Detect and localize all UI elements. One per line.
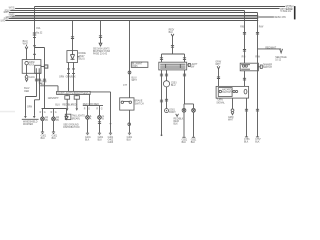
wire lamp C1 drop: [87, 106, 89, 116]
junction dot bottom left: [161, 134, 163, 136]
wire jog B: [35, 100, 40, 116]
lamp PARK2: [52, 117, 56, 121]
svg-text:TAILLIGHTS: TAILLIGHTS: [72, 115, 85, 118]
wire comb out mid: [166, 70, 168, 81]
svg-text:G101: G101: [29, 77, 35, 79]
svg-text:RED: RED: [72, 105, 77, 107]
wire lamp C2 drop: [99, 106, 101, 116]
arrow A down: [24, 116, 27, 118]
svg-text:G403: G403: [108, 142, 114, 144]
inner box B: [218, 88, 232, 97]
svg-text:G: G: [55, 112, 57, 114]
contact circle inner: [219, 90, 221, 92]
wire box B out right: [246, 98, 248, 137]
svg-text:SIGNAL: SIGNAL: [216, 101, 225, 104]
connector bar: [22, 118, 39, 120]
feed from band: [89, 95, 91, 106]
end tick right1: [245, 136, 248, 138]
diode symbol inside: [70, 51, 74, 60]
svg-text:WASHER: WASHER: [23, 123, 33, 126]
switch box B outer: [216, 86, 249, 98]
ground G101 circle-arrow: [25, 76, 28, 79]
ground ticks switch: [128, 133, 131, 135]
svg-text:G: G: [88, 109, 90, 111]
arrow down B: [76, 108, 79, 111]
lamp TAIL2: [192, 108, 196, 112]
ground ticks lamp1: [86, 133, 89, 135]
connector box out A: [66, 95, 68, 96]
boxed label on wire: [131, 62, 148, 67]
wire drop B from L4: [257, 13, 259, 137]
internal rows: [160, 64, 185, 68]
RIGHTCOL: [215, 11, 287, 144]
appendix stub: [187, 64, 189, 66]
oval contact: [244, 89, 247, 94]
svg-text:(BLU): (BLU): [79, 58, 85, 60]
wire gnd-arrow drop: [66, 109, 68, 117]
wire lamp L2 ground: [53, 121, 55, 132]
svg-text:BLK: BLK: [255, 141, 260, 143]
wire arrow to box B: [218, 69, 220, 86]
junction dot x110.9: [110, 123, 112, 125]
ticks wire B low: [256, 109, 259, 111]
svg-text:GRN/WHT: GRN/WHT: [48, 98, 60, 100]
wire drop to diode unit: [72, 21, 74, 51]
lamp DASH2: [98, 116, 102, 120]
lamp DASH1: [86, 116, 90, 120]
wire box B out left: [232, 98, 234, 109]
hollow arrow down: [65, 116, 68, 119]
wire jog A: [26, 97, 37, 116]
svg-text:BLK: BLK: [52, 138, 57, 140]
svg-text:C505: C505: [132, 66, 138, 68]
wire TAIL2 ground: [193, 112, 195, 137]
svg-text:BLK: BLK: [98, 139, 103, 141]
wire band extension right: [90, 92, 110, 133]
wire bus L1 WHT: [35, 6, 286, 8]
connector arrow into relay: [25, 45, 28, 49]
svg-text:RED GRN RED: RED GRN RED: [83, 104, 99, 106]
svg-text:ASSY: ASSY: [79, 55, 86, 58]
wire bus L6: [11, 16, 274, 18]
BUSES: [1, 6, 296, 22]
wire bus L2 WHT/YEL: [15, 8, 280, 10]
wire bus L7: [9, 18, 259, 20]
svg-text:SWITCH: SWITCH: [135, 103, 144, 105]
ticks mid low: [165, 99, 168, 101]
ticks: [245, 109, 248, 111]
wire lamp2 to ground: [99, 119, 101, 133]
ticks box A out: [243, 78, 246, 80]
svg-text:MOTOR: MOTOR: [29, 65, 34, 67]
connector label box C1: [44, 65, 48, 68]
svg-text:G: G: [101, 109, 103, 111]
svg-text:WHT: WHT: [132, 80, 138, 82]
svg-text:GRN: GRN: [59, 77, 64, 79]
wire arrow to relay box: [26, 49, 28, 59]
svg-text:C77: C77: [123, 85, 128, 87]
svg-text:BLK: BLK: [182, 142, 187, 144]
wire box A out: [244, 71, 246, 87]
stub right of diode box: [78, 56, 80, 58]
ground ticks x110.9: [109, 133, 112, 135]
connector circle-arrow: [231, 109, 234, 112]
fork bar right lamps: [184, 104, 194, 109]
wire relay pin A down: [36, 73, 38, 96]
connector ticks outs: [67, 69, 75, 74]
svg-text:BLK: BLK: [85, 139, 90, 141]
svg-text:SWITCH: SWITCH: [222, 92, 232, 94]
wire mid to ground circle: [166, 87, 168, 109]
wire TAIL1 ground: [183, 112, 185, 137]
wire lamp L1 ground: [42, 121, 44, 132]
diode unit box U1: [67, 51, 78, 63]
svg-text:BLK: BLK: [41, 84, 46, 86]
svg-text:DISTRIBUTION: DISTRIBUTION: [63, 127, 80, 129]
svg-text:BLK: BLK: [127, 139, 132, 141]
ticks x100: [99, 36, 102, 38]
wire drop arrow mid x100: [100, 21, 102, 44]
wire motor to ground: [26, 65, 28, 76]
svg-text:SWITCH: SWITCH: [263, 67, 272, 69]
lamp bus left: [42, 108, 67, 110]
wire lamp L2 drop: [53, 109, 55, 117]
svg-text:BODY: BODY: [169, 112, 176, 114]
wire bus L3: [10, 10, 244, 12]
svg-text:15A: 15A: [36, 27, 41, 30]
connector tick riser y45.8: [33, 45, 36, 47]
internal dividers: [166, 64, 181, 68]
arrow mid hollow: [99, 43, 102, 46]
svg-text:SEE PAGE: SEE PAGE: [275, 56, 287, 59]
faint page artifact bottom-left: [0, 111, 15, 113]
contact circles: [121, 101, 123, 103]
svg-text:10-12: 10-12: [275, 59, 282, 61]
wire branch to x44: [35, 48, 45, 109]
arrow B down: [33, 116, 36, 118]
ticks wire A: [243, 32, 246, 34]
svg-text:HAZARD: HAZARD: [222, 89, 232, 92]
svg-text:No.32: No.32: [36, 32, 43, 34]
connector box out B: [76, 95, 78, 96]
svg-text:WASHER: WASHER: [29, 61, 35, 64]
connector circle C facing: [163, 81, 169, 87]
wire comb right leg: [184, 54, 186, 62]
wire main riser: [34, 7, 36, 60]
svg-text:PK: PK: [45, 120, 49, 122]
lamp bus center: [83, 105, 103, 107]
wire diode out A: [68, 63, 70, 92]
arrow on wire B: [39, 83, 42, 85]
ticks out mid: [165, 74, 168, 76]
svg-text:SEE DASH LIGHTS: SEE DASH LIGHTS: [93, 47, 110, 50]
connector arrow comb: [171, 34, 174, 37]
MIDCOL: [40, 21, 148, 144]
wire bus L8: [5, 20, 258, 22]
wire bus L5: [15, 15, 258, 17]
svg-text:PK: PK: [56, 120, 60, 122]
comb switch box SW1: [159, 62, 187, 70]
sub-box switch contacts: [35, 65, 41, 73]
COMBSW: [159, 30, 198, 144]
svg-text:BLK: BLK: [174, 124, 179, 126]
connector ticks on riser: [33, 33, 36, 37]
ticks comb legs: [160, 58, 186, 60]
stub right box A: [258, 66, 260, 68]
switch box A: [240, 63, 258, 71]
page-continuation bar right: [294, 6, 296, 19]
wire arrow stub A: [66, 99, 68, 108]
svg-text:BRAKE: BRAKE: [135, 100, 143, 103]
svg-text:BLU: BLU: [171, 85, 176, 87]
lamp TAIL1: [182, 108, 186, 112]
wire lamp1 to ground: [87, 119, 89, 133]
svg-text:DASH LIGHTS BRIGHTNESS: DASH LIGHTS BRIGHTNESS: [58, 92, 89, 95]
wire comb out right: [184, 70, 186, 104]
svg-text:BLU: BLU: [55, 105, 60, 107]
svg-text:(REAR): (REAR): [72, 117, 80, 120]
contacts pair: [233, 90, 235, 92]
ticks wire A low: [243, 50, 246, 52]
relay box (wiper motor assy): [22, 60, 41, 74]
svg-text:R/B: R/B: [242, 56, 246, 58]
wire arrow stub B: [76, 99, 78, 108]
splice circle S2: [128, 123, 131, 126]
tick pair on lamp2 wire: [98, 122, 101, 124]
svg-text:R/B: R/B: [240, 26, 244, 28]
branch to page arrow: [258, 48, 282, 50]
svg-text:RED/WHT: RED/WHT: [265, 47, 276, 49]
svg-text:GRN: GRN: [27, 106, 32, 108]
svg-text:RED: RED: [24, 91, 29, 93]
T-bar comb: [162, 53, 185, 55]
wire diode out B: [73, 63, 75, 92]
ticks out right: [183, 74, 186, 76]
wire drop A from L3: [244, 11, 246, 64]
svg-text:BLK: BLK: [191, 142, 196, 144]
hollow arrow page: [280, 49, 283, 53]
wire relay pin B down: [39, 73, 41, 100]
ground ticks lamp2: [98, 133, 101, 135]
wire comb feed: [172, 36, 174, 54]
svg-text:BLK: BLK: [41, 138, 46, 140]
svg-text:BLK: BLK: [244, 141, 249, 143]
tick on branch wire: [43, 79, 46, 81]
svg-text:WHT: WHT: [23, 44, 29, 46]
connector arrow into B: [217, 66, 220, 69]
wire comb left leg: [161, 54, 163, 62]
wire bus L4: [9, 12, 258, 14]
boxed label taillights: [65, 114, 71, 119]
arrow down A: [66, 108, 69, 111]
labels wire colors mid: [176, 114, 179, 117]
band box (brightness controller): [57, 91, 91, 94]
connector ticks x72: [71, 37, 74, 39]
ticks on relay outputs: [35, 79, 41, 81]
ticks wire B: [256, 32, 259, 34]
svg-text:RED/BLK C551: RED/BLK C551: [274, 17, 286, 19]
ticks comb feed: [171, 46, 174, 48]
ground circle bolt: [165, 109, 169, 113]
LEFTCOL: [22, 7, 59, 127]
wire comb out left: [161, 70, 163, 135]
svg-text:WHT: WHT: [228, 120, 234, 122]
connector tick riser y54.3: [33, 53, 36, 55]
wire lamp L1 drop: [42, 109, 44, 117]
stub to connector label: [41, 66, 44, 68]
ticks out left: [160, 74, 163, 102]
contact pins: [36, 68, 39, 73]
svg-text:BLK/YEL: BLK/YEL: [1, 20, 6, 22]
ticks: [217, 77, 220, 79]
link wire to band: [40, 86, 58, 92]
switch box SW-MID: [120, 98, 134, 110]
end tick right2: [256, 136, 259, 138]
svg-text:G: G: [44, 112, 46, 114]
svg-text:GRN/BLK: GRN/BLK: [66, 77, 77, 79]
wire switch to ground: [129, 110, 131, 133]
motor M1 circle: [25, 61, 28, 64]
svg-text:TO PAGE 23-2: TO PAGE 23-2: [280, 10, 292, 13]
svg-text:PAGE 23-142: PAGE 23-142: [93, 53, 108, 56]
lamp PARK1: [41, 117, 45, 121]
contacts box A: [243, 65, 245, 67]
splice circle S1: [128, 71, 131, 74]
wire drop x129.5: [129, 21, 131, 98]
